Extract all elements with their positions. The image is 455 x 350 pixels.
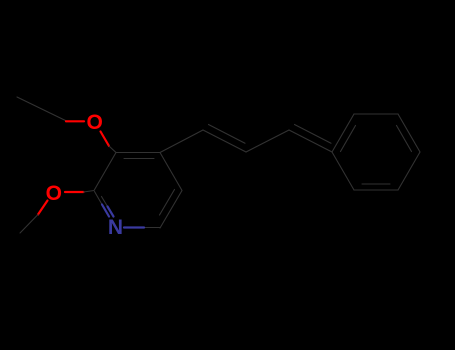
- ring bond C2-C3: [94, 153, 116, 191]
- benzene edge R-BR: [398, 152, 420, 190]
- benzene edge BR-BL inner line: [362, 183, 390, 185]
- benzene edge TL-TR: [354, 113, 398, 115]
- bond O1-C3 red half: [101, 132, 110, 147]
- chain bond Ca=Cb inner line: [209, 125, 246, 144]
- svg-text:O: O: [46, 182, 62, 205]
- bond O2-C2 gray half: [84, 191, 95, 193]
- chain bond Ca=Cb: [203, 130, 246, 152]
- wire: methyl bond to O1 (red half): [66, 120, 84, 122]
- methyl bond O2 to CH3 (gray half): [20, 215, 38, 234]
- chain bond C4-Ca: [160, 130, 203, 153]
- benzene edge BL-L: [332, 152, 354, 190]
- bond O2-C2 red half: [65, 191, 84, 193]
- bond C6-N1 blue half: [124, 226, 144, 228]
- ring bond C3-C4: [116, 152, 160, 154]
- chain bond Cc=Cd inner line: [295, 125, 332, 144]
- ring bond C5-C6: [160, 191, 182, 229]
- benzene edge L-TL inner line: [341, 126, 356, 152]
- bond N1=C2 inner gray half: [102, 197, 108, 207]
- ring bond C3=C4 inner line: [124, 158, 154, 160]
- bond C6-N1 gray half: [144, 227, 160, 229]
- bond N1=C2 gray half: [95, 192, 103, 205]
- benzene edge TR-R inner line: [397, 126, 412, 152]
- benzene edge L-TL: [332, 114, 354, 152]
- ring bond C5=C6 inner line: [160, 190, 175, 216]
- chain bond Cc=Cd: [289, 130, 332, 152]
- benzene edge TR-R: [398, 114, 420, 152]
- benzene edge BR-BL: [354, 189, 398, 191]
- bond N1=C2 inner blue half: [108, 207, 114, 217]
- chain bond Cb-Cc: [246, 130, 289, 152]
- svg-text:N: N: [108, 216, 123, 239]
- wire: methyl bond CH3 to O1 (gray half): [17, 97, 67, 121]
- bond O1-C3 gray half: [109, 146, 116, 153]
- ring bond C4-C5: [160, 153, 182, 191]
- methyl bond O2 to CH3 (red half): [38, 201, 48, 215]
- svg-text:O: O: [87, 111, 103, 134]
- bond N1=C2 blue half: [102, 205, 109, 217]
